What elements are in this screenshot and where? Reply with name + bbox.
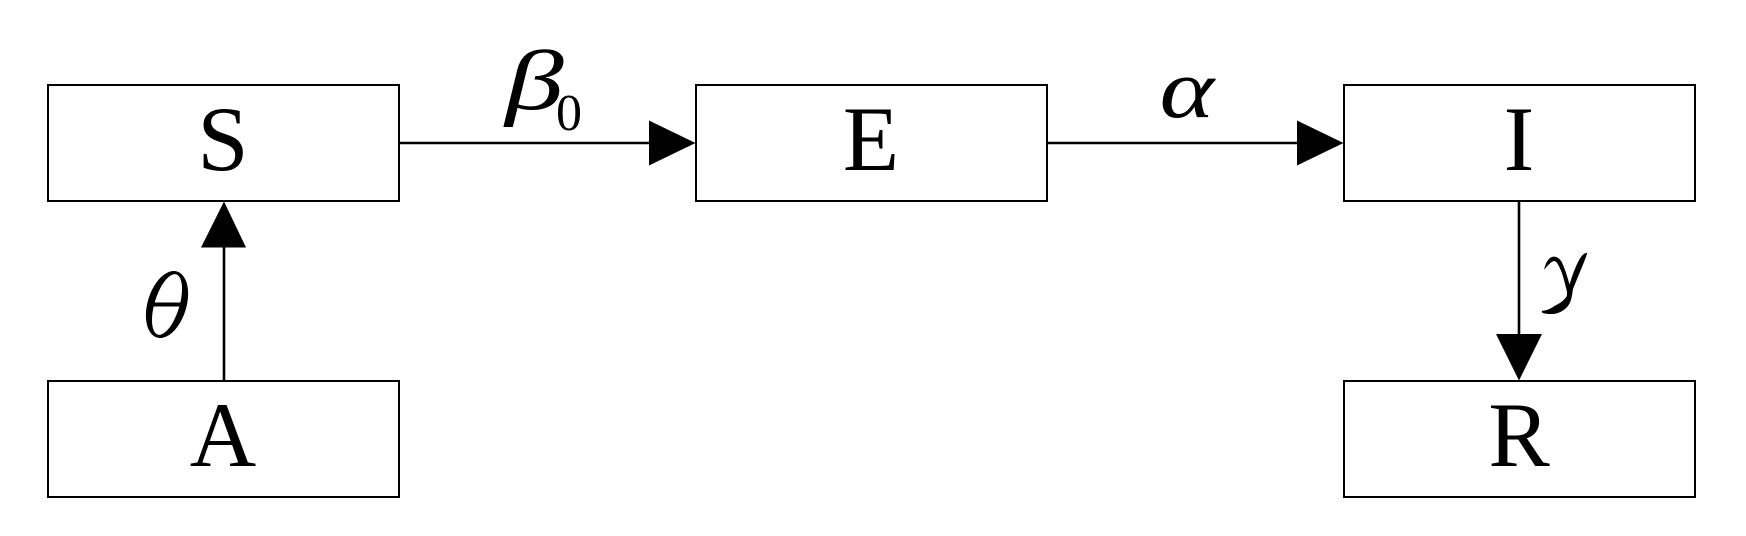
label theta [138,266,195,343]
arrowhead into E [649,121,696,166]
wire S to E [400,142,652,145]
label gamma [1542,253,1588,315]
svg-text:A: A [190,384,256,486]
wire E to I [1048,142,1300,145]
box S [48,85,399,201]
svg-text:S: S [197,88,248,190]
arrowhead into S [201,202,246,248]
svg-text:β: β [503,35,564,128]
box E [696,85,1047,201]
box I [1344,85,1695,201]
wire A to S [223,244,226,380]
wire I to R [1518,202,1521,337]
arrowhead into I [1297,121,1344,166]
svg-text:E: E [843,88,899,190]
label alpha [1160,43,1217,135]
svg-text:R: R [1488,384,1550,486]
box A [48,381,399,497]
box R [1344,381,1695,497]
svg-text:I: I [1504,88,1535,190]
arrowhead into R [1496,334,1542,381]
svg-text:α: α [1160,43,1217,135]
label beta_0 [503,35,582,142]
svg-text:0: 0 [556,85,582,142]
